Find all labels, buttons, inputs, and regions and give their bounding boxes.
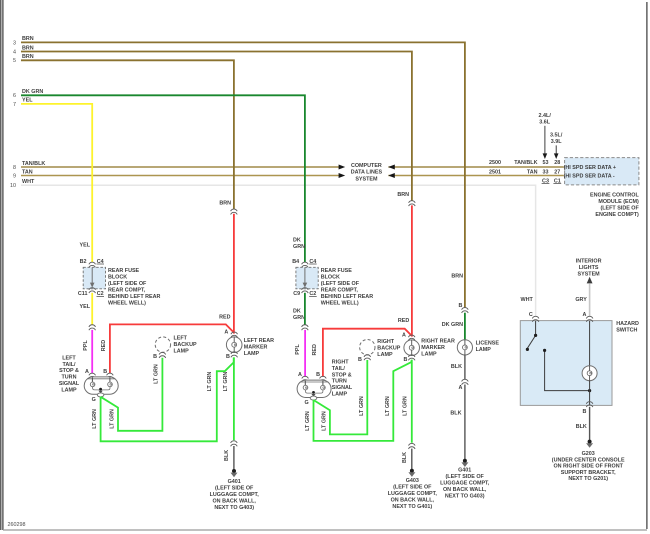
wire PPL down to right tail lamp pin A bbox=[304, 330, 306, 377]
svg-text:A: A bbox=[582, 312, 586, 318]
svg-text:WHEEL WELL): WHEEL WELL) bbox=[108, 300, 146, 306]
inline connector BRN to RED (right marker feed) bbox=[409, 201, 416, 206]
svg-text:B2: B2 bbox=[80, 259, 87, 265]
svg-text:27: 27 bbox=[554, 169, 560, 175]
svg-text:BEHIND LEFT REAR: BEHIND LEFT REAR bbox=[108, 294, 161, 300]
svg-text:4: 4 bbox=[13, 49, 16, 55]
svg-text:B: B bbox=[404, 357, 408, 363]
svg-text:LICENSE: LICENSE bbox=[476, 340, 500, 346]
ground G401 symbol (license) bbox=[461, 459, 468, 467]
svg-text:RED: RED bbox=[101, 340, 107, 351]
page border right line bbox=[646, 2, 648, 529]
wire 4 BRN horizontal+down to right marker column bbox=[21, 52, 412, 202]
svg-text:LAMP: LAMP bbox=[174, 349, 190, 355]
svg-text:LT GRN: LT GRN bbox=[153, 364, 159, 384]
connector at right tail lamp pin A bbox=[302, 376, 309, 381]
wire 8 TAN/BLK left segment bbox=[21, 166, 339, 168]
page border left double line bbox=[1, 0, 3, 530]
rear fuse block (left) box bbox=[83, 267, 105, 289]
inline connector LT GRN to BLK (right ground lead) bbox=[409, 443, 416, 448]
wire RED from BRN splice down to right marker lamp A bbox=[411, 205, 413, 336]
hazard switch internal contacts bbox=[527, 321, 589, 391]
svg-text:SUPPORT BRACKET,: SUPPORT BRACKET, bbox=[561, 470, 616, 476]
svg-text:ENGINE COMPT): ENGINE COMPT) bbox=[595, 212, 639, 218]
lamp L5 right backup lamp (dashed reference) bbox=[360, 340, 375, 355]
wire LT GRN left tail G to left backup lamp B bbox=[101, 358, 163, 431]
svg-text:3: 3 bbox=[13, 40, 16, 46]
lamp L7 license lamp bbox=[457, 340, 472, 355]
svg-text:ENGINE CONTROL: ENGINE CONTROL bbox=[590, 192, 640, 198]
wire BLK hazard to ground G203 bbox=[589, 407, 591, 440]
svg-text:2500: 2500 bbox=[489, 160, 501, 166]
svg-text:A: A bbox=[402, 332, 406, 338]
svg-text:REAR COMPT,: REAR COMPT, bbox=[108, 287, 146, 293]
ground G203 name label bbox=[552, 451, 625, 482]
svg-text:(LEFT SIDE OF: (LEFT SIDE OF bbox=[321, 281, 360, 287]
svg-text:STOP &: STOP & bbox=[59, 368, 79, 374]
wire RED from BRN splice down to left marker lamp A bbox=[233, 214, 235, 334]
svg-text:ON BACK WALL,: ON BACK WALL, bbox=[443, 487, 487, 493]
label DK GRN below right fuse block bbox=[293, 308, 305, 321]
svg-text:3.5L/: 3.5L/ bbox=[550, 133, 563, 139]
ground G401 symbol bbox=[231, 469, 238, 477]
svg-text:BLOCK: BLOCK bbox=[108, 274, 127, 280]
svg-text:DK: DK bbox=[293, 238, 301, 244]
svg-text:GRN: GRN bbox=[293, 244, 305, 250]
connector C4 of rear fuse block bbox=[97, 259, 105, 265]
svg-text:G: G bbox=[304, 400, 308, 406]
svg-text:SWITCH: SWITCH bbox=[616, 328, 637, 334]
svg-text:53: 53 bbox=[543, 160, 549, 166]
svg-text:BLK: BLK bbox=[450, 410, 461, 416]
connector at right marker lamp pin A bbox=[408, 335, 415, 340]
svg-text:BLK: BLK bbox=[576, 424, 587, 430]
svg-text:33: 33 bbox=[543, 169, 549, 175]
arrow 2.4L/3.6L to pin 53 bbox=[544, 126, 546, 154]
fuse element arrow inside right rear fuse block bbox=[303, 268, 308, 288]
svg-text:B: B bbox=[358, 357, 362, 363]
wire LT GRN left marker lamp B down to ground connector bbox=[233, 357, 235, 440]
svg-text:TAN/BLK: TAN/BLK bbox=[514, 160, 537, 166]
svg-text:BACKUP: BACKUP bbox=[174, 342, 197, 348]
svg-text:LAMP: LAMP bbox=[61, 387, 77, 393]
hazard switch contact dots bbox=[526, 334, 591, 392]
ECM name label bbox=[590, 192, 640, 218]
connector C2 of rear fuse block (right) bbox=[309, 291, 317, 297]
wire GRY hazard switch A to interior lights bbox=[589, 283, 591, 316]
svg-text:LAMP: LAMP bbox=[244, 351, 260, 357]
svg-text:HAZARD: HAZARD bbox=[616, 321, 639, 327]
svg-text:(LEFT SIDE OF: (LEFT SIDE OF bbox=[393, 485, 432, 491]
left tail lamp name label bbox=[59, 355, 80, 393]
svg-text:TAN/BLK: TAN/BLK bbox=[22, 161, 45, 167]
label DK GRN above right fuse block bbox=[293, 238, 305, 251]
svg-text:9: 9 bbox=[13, 173, 16, 179]
svg-text:PPL: PPL bbox=[295, 344, 301, 355]
connector at right tail lamp pin B bbox=[320, 376, 327, 381]
connector at left fuse block bottom bbox=[89, 288, 96, 293]
connector at left tail lamp pin A bbox=[89, 373, 96, 378]
svg-text:B: B bbox=[153, 354, 157, 360]
value label 3.5L/3.9L bbox=[550, 133, 563, 146]
svg-text:LUGGAGE COMPT,: LUGGAGE COMPT, bbox=[388, 491, 438, 497]
wire hazard pin A to indicator lamp bbox=[589, 321, 591, 366]
svg-text:10: 10 bbox=[10, 183, 16, 189]
svg-text:3.9L: 3.9L bbox=[551, 139, 562, 145]
wire DK GRN down to license lamp bbox=[464, 313, 466, 340]
svg-text:COMPUTER: COMPUTER bbox=[351, 163, 382, 169]
svg-text:MARKER: MARKER bbox=[421, 345, 445, 351]
svg-text:INTERIOR: INTERIOR bbox=[576, 259, 602, 265]
svg-text:B: B bbox=[316, 372, 320, 378]
svg-text:LT GRN: LT GRN bbox=[207, 372, 213, 392]
svg-text:LT GRN: LT GRN bbox=[92, 409, 98, 429]
svg-text:RED: RED bbox=[398, 318, 409, 324]
svg-text:BLOCK: BLOCK bbox=[321, 274, 340, 280]
wire LT GRN right tail G to right backup lamp B bbox=[314, 360, 368, 434]
connector at right backup lamp pin B bbox=[364, 355, 371, 360]
svg-text:GRN: GRN bbox=[293, 315, 305, 321]
svg-text:RED: RED bbox=[219, 314, 230, 320]
wire 9 ECM segment TAN bbox=[388, 175, 563, 177]
svg-text:SYSTEM: SYSTEM bbox=[355, 176, 378, 182]
svg-text:A: A bbox=[298, 372, 302, 378]
wire RED left tail lamp B to left marker lamp A bbox=[110, 324, 234, 373]
svg-text:LEFT REAR: LEFT REAR bbox=[244, 338, 274, 344]
svg-text:WHEEL WELL): WHEEL WELL) bbox=[321, 300, 359, 306]
wire YEL from fuse block to inline connector bbox=[91, 293, 93, 325]
svg-text:(UNDER CENTER CONSOLE: (UNDER CENTER CONSOLE bbox=[552, 457, 625, 463]
svg-text:8: 8 bbox=[13, 165, 16, 171]
svg-text:TURN: TURN bbox=[332, 379, 347, 385]
left rear marker lamp name label bbox=[244, 338, 274, 357]
svg-text:YEL: YEL bbox=[80, 243, 91, 249]
svg-text:LT GRN: LT GRN bbox=[359, 396, 365, 416]
right tail lamp name label bbox=[332, 360, 353, 398]
fuse element arrow inside left rear fuse block bbox=[90, 268, 95, 288]
svg-text:B4: B4 bbox=[292, 259, 299, 265]
svg-text:DK: DK bbox=[293, 308, 301, 314]
svg-text:RIGHT: RIGHT bbox=[332, 360, 349, 366]
connector at right fuse block top bbox=[302, 262, 309, 267]
svg-text:BLK: BLK bbox=[402, 452, 408, 463]
left backup lamp name label bbox=[174, 336, 197, 355]
connector C4 of rear fuse block (right) bbox=[309, 259, 317, 265]
ground G401 (license) name label bbox=[440, 468, 490, 500]
license lamp name label bbox=[476, 340, 500, 353]
connector at hazard switch pin A bbox=[586, 316, 593, 321]
connector at hazard switch pin B bbox=[586, 402, 593, 407]
inline connector BRN to RED (left marker feed) bbox=[231, 209, 238, 214]
svg-text:LAMP: LAMP bbox=[332, 391, 348, 397]
inline connector BRN to DK GRN (license feed) bbox=[462, 308, 469, 313]
svg-text:2.4L/: 2.4L/ bbox=[539, 113, 552, 119]
svg-text:LT GRN: LT GRN bbox=[322, 411, 328, 431]
inline connector license ground lead bbox=[462, 379, 469, 384]
rear fuse block (right) name label bbox=[321, 268, 374, 307]
wire 6 DK GRN horizontal+down to right fuse block bbox=[21, 95, 305, 262]
svg-text:BRN: BRN bbox=[219, 200, 231, 206]
svg-text:TAN: TAN bbox=[527, 169, 538, 175]
svg-text:BRN: BRN bbox=[397, 192, 409, 198]
svg-text:(LEFT SIDE OF: (LEFT SIDE OF bbox=[108, 281, 147, 287]
svg-text:TURN: TURN bbox=[62, 375, 77, 381]
lamp L1 left tail/stop/turn signal lamp body bbox=[84, 377, 118, 397]
connector C2 of rear fuse block bbox=[97, 291, 105, 297]
svg-text:REAR FUSE: REAR FUSE bbox=[108, 268, 140, 274]
svg-text:G: G bbox=[92, 397, 96, 403]
svg-text:(LEFT SIDE OF: (LEFT SIDE OF bbox=[600, 205, 639, 211]
svg-text:G401: G401 bbox=[228, 479, 241, 485]
svg-text:LIGHTS: LIGHTS bbox=[579, 265, 599, 271]
wire BLK down to ground G401 (license) bbox=[464, 385, 466, 460]
svg-text:SIGNAL: SIGNAL bbox=[59, 381, 80, 387]
svg-text:ON BACK WALL,: ON BACK WALL, bbox=[212, 499, 256, 505]
svg-text:(LEFT SIDE OF: (LEFT SIDE OF bbox=[215, 486, 254, 492]
svg-text:LT GRN: LT GRN bbox=[110, 409, 116, 429]
svg-text:A: A bbox=[458, 385, 462, 391]
svg-text:C: C bbox=[529, 312, 533, 318]
svg-text:DATA LINES: DATA LINES bbox=[351, 170, 383, 176]
svg-text:2501: 2501 bbox=[489, 169, 501, 175]
svg-text:B: B bbox=[103, 369, 107, 375]
svg-text:LUGGAGE COMPT,: LUGGAGE COMPT, bbox=[440, 481, 490, 487]
svg-text:LUGGAGE COMPT,: LUGGAGE COMPT, bbox=[210, 492, 260, 498]
svg-text:BRN: BRN bbox=[22, 45, 34, 51]
svg-text:RED: RED bbox=[312, 344, 318, 355]
arrow 3.5L/3.9L to pin 28 bbox=[555, 145, 557, 154]
rear fuse block (right) box bbox=[296, 267, 318, 289]
svg-text:LEFT: LEFT bbox=[174, 336, 188, 342]
ground G403 symbol bbox=[408, 469, 415, 477]
svg-text:28: 28 bbox=[554, 160, 560, 166]
svg-text:BEHIND LEFT REAR: BEHIND LEFT REAR bbox=[321, 294, 374, 300]
svg-text:A: A bbox=[85, 369, 89, 375]
svg-text:A: A bbox=[224, 329, 228, 335]
svg-text:5: 5 bbox=[13, 58, 16, 64]
svg-text:LT GRN: LT GRN bbox=[402, 396, 408, 416]
value label 2.4L/3.6L bbox=[539, 113, 552, 126]
wire BLK to ground G401 bbox=[233, 446, 235, 470]
svg-text:ON RIGHT SIDE OF FRONT: ON RIGHT SIDE OF FRONT bbox=[553, 464, 623, 470]
ground G403 name label bbox=[388, 478, 438, 510]
lamp L8 hazard indicator lamp bbox=[582, 366, 597, 381]
wire 9 right arrow into computer data lines system bbox=[339, 173, 346, 178]
wire LT GRN right marker lamp B down to ground connector bbox=[411, 360, 413, 443]
svg-text:YEL: YEL bbox=[80, 304, 91, 310]
wire 3 BRN horizontal+down to license column bbox=[21, 42, 465, 307]
connector at left backup lamp pin B bbox=[159, 352, 166, 357]
connector C1 bbox=[553, 178, 561, 184]
svg-text:NEXT TO G403): NEXT TO G403) bbox=[214, 505, 254, 511]
svg-text:RIGHT: RIGHT bbox=[377, 339, 394, 345]
svg-text:BRN: BRN bbox=[22, 36, 34, 42]
connector at left marker lamp pin A bbox=[231, 332, 238, 337]
svg-text:6: 6 bbox=[13, 93, 16, 99]
svg-text:GRY: GRY bbox=[575, 297, 587, 303]
wire 5 BRN horizontal+down to left marker column bbox=[21, 60, 234, 209]
svg-text:(HI SPD SER DATA +: (HI SPD SER DATA + bbox=[564, 165, 616, 171]
wire BLK to ground G403 bbox=[411, 449, 413, 470]
svg-text:RIGHT REAR: RIGHT REAR bbox=[421, 338, 455, 344]
connector at left marker lamp pin B bbox=[231, 352, 238, 357]
connector at right marker lamp pin B bbox=[408, 355, 415, 360]
wire 9 left arrow from ECM toward system bbox=[388, 173, 395, 178]
svg-text:SYSTEM: SYSTEM bbox=[578, 272, 601, 278]
wire 8 left arrow from ECM toward system bbox=[388, 165, 395, 170]
wire 7 YEL horizontal+down to left fuse block bbox=[21, 104, 92, 262]
svg-text:NEXT TO G201): NEXT TO G201) bbox=[568, 476, 608, 482]
svg-text:BLK: BLK bbox=[224, 450, 230, 461]
svg-text:B: B bbox=[458, 303, 462, 309]
svg-text:LAMP: LAMP bbox=[377, 352, 393, 358]
lamp L4 right tail/stop/turn signal lamp body bbox=[297, 380, 331, 400]
svg-text:B: B bbox=[226, 354, 230, 360]
connector at left fuse block top bbox=[89, 262, 96, 267]
wire 9 TAN left segment bbox=[21, 175, 339, 177]
wire BLK license lamp to connector bbox=[464, 355, 466, 379]
inline connector LT GRN to BLK (left ground lead) bbox=[231, 441, 238, 446]
svg-text:MARKER: MARKER bbox=[244, 344, 268, 350]
svg-text:LT GRN: LT GRN bbox=[385, 396, 391, 416]
svg-text:REAR COMPT,: REAR COMPT, bbox=[321, 287, 359, 293]
svg-text:G403: G403 bbox=[406, 478, 419, 484]
svg-text:260298: 260298 bbox=[8, 522, 26, 528]
lamp L2 left backup lamp (dashed reference) bbox=[155, 337, 170, 352]
connector at left tail lamp pin B bbox=[107, 373, 114, 378]
svg-text:NEXT TO G403): NEXT TO G403) bbox=[445, 494, 485, 500]
svg-text:LEFT: LEFT bbox=[62, 355, 76, 361]
page border bottom line bbox=[3, 529, 647, 531]
connector at hazard switch pin C bbox=[532, 316, 539, 321]
lamp L6 right rear marker lamp bbox=[404, 340, 420, 356]
wire indicator lamp to hazard pin B bbox=[589, 380, 591, 405]
svg-text:YEL: YEL bbox=[22, 98, 33, 104]
right backup lamp name label bbox=[377, 339, 400, 358]
svg-text:WHT: WHT bbox=[22, 179, 35, 185]
wire RED right tail lamp B to right marker lamp A bbox=[323, 329, 412, 377]
svg-text:DK GRN: DK GRN bbox=[22, 89, 43, 95]
svg-text:G401: G401 bbox=[458, 468, 471, 474]
connector at right fuse block bottom bbox=[302, 288, 309, 293]
svg-text:G203: G203 bbox=[582, 451, 595, 457]
svg-text:3.6L: 3.6L bbox=[539, 120, 550, 126]
svg-text:C11: C11 bbox=[78, 291, 88, 297]
svg-text:BLK: BLK bbox=[451, 364, 462, 370]
hazard switch S1 box bbox=[520, 321, 612, 406]
rear fuse block (left) name label bbox=[108, 268, 161, 307]
lamp L3 left rear marker lamp bbox=[226, 337, 242, 353]
svg-text:B: B bbox=[582, 409, 586, 415]
wire LT GRN right tail G down and right to marker net bbox=[314, 360, 412, 441]
svg-text:PPL: PPL bbox=[83, 340, 89, 351]
arrow up to interior lights system bbox=[587, 277, 593, 284]
wire LT GRN left tail G down and right to marker net bbox=[101, 357, 234, 441]
svg-text:BRN: BRN bbox=[22, 54, 34, 60]
wire 10 WHT horizontal+down to hazard switch bbox=[21, 185, 536, 316]
inline connector DK GRN to PPL (right) bbox=[302, 325, 309, 330]
node computer data lines system label bbox=[351, 163, 383, 183]
svg-text:TAIL/: TAIL/ bbox=[62, 362, 76, 368]
svg-text:BRN: BRN bbox=[451, 274, 463, 280]
svg-text:BACKUP: BACKUP bbox=[377, 346, 400, 352]
wire 8 right arrow into computer data lines system bbox=[339, 165, 346, 170]
svg-text:LT GRN: LT GRN bbox=[305, 411, 311, 431]
svg-text:(LEFT SIDE OF: (LEFT SIDE OF bbox=[446, 474, 485, 480]
wire DK GRN from fuse block to inline connector bbox=[304, 293, 306, 325]
node interior lights system label bbox=[576, 259, 602, 278]
svg-text:TAIL/: TAIL/ bbox=[332, 366, 346, 372]
svg-text:SIGNAL: SIGNAL bbox=[332, 385, 353, 391]
svg-text:WHT: WHT bbox=[521, 297, 534, 303]
inline connector YEL to PPL bbox=[89, 325, 96, 330]
svg-text:7: 7 bbox=[13, 102, 16, 108]
hazard switch name label bbox=[616, 321, 639, 334]
svg-text:(HI SPD SER DATA -: (HI SPD SER DATA - bbox=[564, 174, 615, 180]
ground G203 symbol bbox=[586, 440, 593, 448]
svg-text:TAN: TAN bbox=[22, 169, 33, 175]
svg-text:C9: C9 bbox=[293, 291, 300, 297]
svg-text:REAR FUSE: REAR FUSE bbox=[321, 268, 353, 274]
ECM U1 box bbox=[565, 158, 639, 185]
ground G401 name label bbox=[210, 479, 260, 511]
svg-text:LAMP: LAMP bbox=[421, 351, 437, 357]
connector C3 bbox=[542, 178, 550, 184]
svg-text:ON BACK WALL,: ON BACK WALL, bbox=[391, 498, 435, 504]
svg-text:DK GRN: DK GRN bbox=[442, 322, 463, 328]
svg-text:LT GRN: LT GRN bbox=[223, 372, 229, 392]
right rear marker lamp name label bbox=[421, 338, 455, 357]
svg-text:MODULE (ECM): MODULE (ECM) bbox=[598, 199, 639, 205]
wire PPL down to left tail lamp pin A bbox=[91, 330, 93, 374]
svg-text:STOP &: STOP & bbox=[332, 372, 352, 378]
wire 8 ECM segment TAN/BLK bbox=[388, 166, 563, 168]
svg-text:LAMP: LAMP bbox=[476, 347, 492, 353]
svg-text:NEXT TO G401): NEXT TO G401) bbox=[392, 504, 432, 510]
